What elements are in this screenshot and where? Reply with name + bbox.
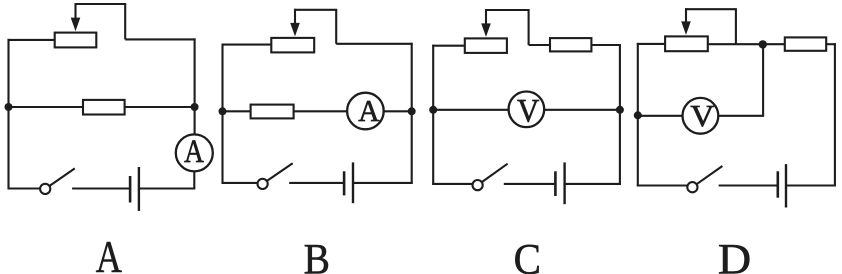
wire middle branch right: [384, 110, 412, 112]
rheostat R1: [55, 33, 97, 48]
svg-text:C: C: [514, 236, 541, 274]
wire slider stem: [74, 3, 76, 20]
svg-text:A: A: [96, 231, 122, 274]
wire middle branch center: [294, 110, 348, 112]
node right junction: [191, 103, 199, 111]
voltmeter V2: [683, 98, 719, 134]
svg-text:V: V: [690, 98, 714, 133]
wire top-right drop: [124, 4, 126, 39]
resistor R2: [83, 100, 125, 115]
switch S3 lever: [482, 164, 508, 182]
svg-text:A: A: [358, 93, 379, 128]
label A: [96, 231, 122, 274]
wire left stub: [432, 45, 465, 47]
node right junction: [616, 106, 624, 114]
wire left stub: [222, 44, 272, 46]
node left junction: [219, 107, 227, 115]
wire right rail: [834, 43, 836, 186]
wire middle branch left: [9, 106, 84, 108]
wire V branch right: [718, 115, 763, 117]
battery B1 long plate: [138, 167, 140, 211]
wire bottom middle: [289, 182, 344, 184]
wire V branch left: [638, 115, 683, 117]
rheostat arrow head: [71, 18, 81, 32]
rheostat arrow head: [481, 23, 491, 37]
wire bottom left: [637, 184, 688, 186]
wire bottom right: [139, 187, 195, 189]
wire bottom left: [432, 183, 472, 185]
node left junction: [634, 111, 642, 119]
wire resistor to corner: [826, 43, 836, 45]
switch S4 lever: [697, 166, 723, 184]
wire bottom left: [8, 187, 41, 189]
ammeter A2: [347, 93, 384, 130]
svg-text:B: B: [304, 235, 330, 274]
ammeter A1: [176, 133, 213, 172]
wire top-right horizontal: [125, 38, 195, 40]
rheostat R5: [465, 38, 507, 53]
voltmeter V1: [509, 92, 545, 129]
wire top (slider to corner): [75, 3, 127, 5]
node top junction: [759, 40, 767, 48]
rheostat arrow head: [681, 21, 691, 35]
wire slider stem: [485, 9, 487, 26]
battery B2 long plate: [352, 162, 354, 203]
wire middle branch right: [125, 106, 195, 108]
node left junction: [429, 106, 437, 114]
wire right rail lower: [193, 171, 195, 188]
wire left rail: [432, 45, 434, 185]
switch S1 lever: [49, 168, 74, 186]
resistor R6: [550, 38, 591, 51]
battery B3 short plate: [554, 171, 557, 196]
wire slider stem: [294, 9, 296, 26]
resistor R8: [785, 37, 826, 50]
resistor R4: [251, 105, 294, 119]
wire left stub: [8, 39, 55, 41]
switch S2 pivot: [258, 179, 268, 189]
switch S1 pivot: [40, 184, 50, 194]
wire rheostat right to resistor: [708, 43, 785, 45]
wire middle branch left: [223, 110, 251, 112]
label C: [514, 236, 541, 274]
battery B4 short plate: [776, 171, 779, 197]
wire top (slider to corner): [485, 9, 530, 11]
wire bottom right: [786, 184, 836, 186]
battery B1 short plate: [129, 176, 132, 203]
wire right rail upper: [194, 38, 196, 134]
switch S3 pivot: [473, 180, 483, 190]
wire bottom left: [222, 182, 258, 184]
wire left rail: [7, 39, 9, 190]
wire bottom right: [565, 183, 621, 185]
switch S2 lever: [267, 163, 293, 181]
wire bottom middle: [719, 184, 778, 186]
svg-text:A: A: [184, 133, 204, 170]
battery B3 long plate: [563, 162, 565, 204]
node right junction: [408, 107, 416, 115]
wire slider stem: [685, 8, 687, 24]
wire bottom middle: [72, 187, 130, 189]
rheostat R7: [665, 36, 708, 51]
wire middle branch right: [544, 109, 620, 111]
wire left rail: [637, 43, 639, 187]
svg-text:V: V: [517, 92, 539, 128]
label D: [718, 235, 751, 274]
rheostat R3: [271, 38, 314, 53]
svg-text:D: D: [718, 235, 751, 274]
switch S4 pivot: [687, 182, 697, 192]
wire top-right horizontal: [336, 43, 413, 45]
battery B4 long plate: [785, 164, 787, 207]
wire bottom middle: [504, 183, 556, 185]
wire from series resistor: [591, 44, 621, 46]
wire top (slider to corner): [294, 9, 337, 11]
node left junction: [5, 103, 13, 111]
wire top tee drop: [735, 9, 737, 44]
wire to series resistor: [529, 44, 550, 46]
wire right rail: [619, 44, 621, 185]
label B: [304, 235, 330, 274]
wire right rail: [411, 43, 413, 184]
wire V branch riser: [762, 44, 764, 116]
battery B2 short plate: [343, 171, 346, 195]
wire top-right drop: [335, 10, 337, 44]
wire left stub: [637, 43, 665, 45]
wire left rail: [221, 44, 223, 184]
wire middle branch left: [433, 109, 509, 111]
wire top-right drop: [528, 10, 530, 45]
rheostat arrow head: [290, 23, 300, 37]
wire bottom right: [353, 182, 413, 184]
wire top (slider to corner): [685, 8, 737, 10]
